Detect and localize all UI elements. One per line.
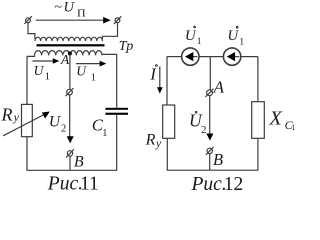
svg-text:U: U — [76, 64, 87, 79]
resistor Ru (Fig.11) variable arrow — [3, 112, 50, 136]
label U1 left — [34, 63, 50, 83]
wire secondary left lead — [27, 55, 35, 56]
label C1 — [92, 116, 108, 139]
caption Fig.12 — [191, 174, 244, 195]
svg-text:U: U — [34, 63, 45, 78]
label XC1 — [269, 107, 296, 132]
svg-text:у: у — [13, 110, 20, 124]
wire top rail right segment (Fig.12) — [241, 56, 258, 58]
label U2 (Fig.11) — [49, 114, 66, 135]
svg-text:2: 2 — [201, 124, 207, 136]
svg-text:1: 1 — [45, 72, 50, 83]
node A (Fig.11) junction dot — [68, 52, 72, 56]
svg-text:R: R — [1, 105, 13, 125]
svg-text:1: 1 — [239, 38, 244, 48]
capacitor C1 plates — [105, 108, 128, 115]
caption Fig.11 — [47, 174, 99, 195]
wire left branch upper (Fig.12) — [166, 57, 168, 105]
wire right branch upper (Fig.12) — [257, 57, 259, 102]
svg-text:П: П — [77, 7, 86, 19]
svg-text:Рис.: Рис. — [47, 174, 83, 195]
terminal B (Fig.11) — [66, 149, 74, 157]
wire right branch lower (Fig.11) — [116, 115, 118, 171]
resistor Ru (Fig.12) body — [163, 105, 175, 138]
terminal right (input) — [114, 16, 121, 24]
source U1 right (Fig.12) — [223, 48, 240, 65]
svg-text:1: 1 — [292, 123, 296, 132]
wire B to bottom rail (Fig.12) — [209, 154, 211, 171]
label U2-dot (Fig.12) — [189, 111, 207, 136]
svg-text:1: 1 — [197, 37, 202, 47]
wire primary left lead — [28, 23, 35, 39]
svg-text:11: 11 — [80, 174, 99, 195]
svg-text:1: 1 — [102, 128, 107, 139]
terminal mid (Fig.11, above U2) — [66, 88, 74, 96]
svg-text:A: A — [60, 52, 70, 67]
wire left branch lower (Fig.12) — [166, 138, 168, 170]
wire left branch lower — [26, 137, 28, 171]
transformer Tr core — [37, 44, 105, 46]
label U1-dot left (Fig.12) — [185, 26, 202, 47]
arrow I (Fig.12) — [157, 67, 163, 94]
terminal left (input) — [24, 16, 31, 24]
terminal A (Fig.12) — [206, 89, 214, 97]
svg-text:A: A — [213, 78, 225, 97]
svg-text:Рис.: Рис. — [191, 174, 227, 195]
svg-text:R: R — [145, 131, 156, 148]
svg-text:~: ~ — [54, 0, 62, 15]
label U1-dot right (Fig.12) — [227, 26, 244, 47]
transformer Tr secondary coil — [35, 51, 103, 56]
svg-text:U: U — [227, 28, 239, 44]
arrow U1 right — [76, 61, 106, 67]
wire top rail with arrow Un — [36, 17, 111, 24]
svg-text:у: у — [155, 138, 162, 150]
svg-text:U: U — [49, 114, 62, 131]
svg-text:X: X — [269, 107, 283, 129]
wire top rail left segment (Fig.12) — [167, 56, 182, 58]
svg-text:U: U — [64, 0, 76, 16]
reactance XC1 body — [252, 102, 265, 139]
wire B to bottom rail (Fig.11) — [69, 156, 71, 170]
source U1 left (Fig.12) — [182, 48, 199, 65]
resistor Ru (Fig.11) body — [22, 104, 33, 136]
wire right branch lower (Fig.12) — [257, 138, 259, 170]
label ~Un — [54, 0, 85, 19]
svg-text:2: 2 — [61, 123, 66, 134]
wire bottom rail (Fig.11) — [26, 169, 117, 171]
arrow U2 (Fig.11) — [67, 95, 74, 143]
label I-dot (Fig.12) — [149, 65, 157, 84]
svg-text:B: B — [74, 153, 84, 170]
wire bottom rail (Fig.12) — [167, 169, 259, 171]
svg-text:U: U — [185, 28, 197, 44]
wire center branch upper (Fig.12) — [209, 57, 211, 90]
arrow U2 (Fig.12) — [206, 96, 213, 141]
transformer Tr primary coil — [35, 37, 102, 41]
label U1 right — [76, 64, 96, 84]
svg-text:1: 1 — [91, 73, 96, 84]
wire right branch upper (Fig.11) — [102, 54, 117, 107]
svg-text:12: 12 — [224, 174, 244, 195]
wire left branch upper — [26, 56, 28, 104]
svg-text:B: B — [213, 150, 223, 169]
label Ru (Fig.11) — [1, 105, 20, 125]
svg-text:Тр: Тр — [119, 39, 133, 54]
wire top rail middle segment (Fig.12) — [199, 56, 223, 58]
terminal B (Fig.12) — [206, 147, 214, 155]
label Ru (Fig.12) — [145, 131, 162, 149]
arrow U1 left — [32, 58, 59, 64]
wire primary right lead — [102, 23, 117, 39]
wire center branch upper — [69, 53, 71, 89]
